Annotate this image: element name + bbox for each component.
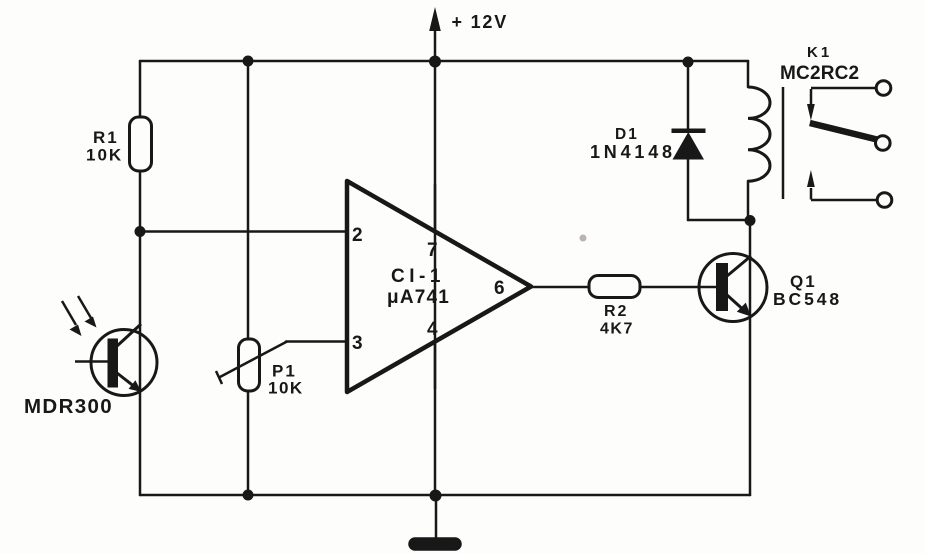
svg-text:MC2RC2: MC2RC2 — [780, 63, 859, 84]
relay K1 armature — [810, 123, 879, 140]
node dot top rail / rail2 — [243, 56, 254, 67]
svg-text:1N4148: 1N4148 — [590, 142, 676, 162]
svg-text:10K: 10K — [86, 146, 123, 165]
MDR300 base bar — [108, 339, 119, 388]
resistor R1 — [130, 117, 152, 171]
node dot top rail / mid rail — [429, 56, 441, 68]
MDR300 collector line — [117, 324, 141, 346]
node dot top rail / D1 — [683, 57, 694, 68]
node dot coil bottom / Q1 collector — [745, 215, 756, 226]
svg-text:10K: 10K — [268, 379, 304, 398]
node dot bottom rail / ground — [430, 490, 442, 502]
svg-text:K1: K1 — [807, 44, 832, 61]
wire P1 wiper to pin 3 — [286, 340, 349, 343]
wire node A to pin 2 — [140, 230, 349, 233]
svg-text:R1: R1 — [93, 128, 119, 147]
wire relay coil top lead — [747, 61, 750, 87]
wire top rail +12V — [140, 60, 748, 63]
Q1 collector line — [727, 256, 751, 276]
MDR300 emitter line with arrow — [117, 373, 133, 386]
diode D1 triangle — [673, 132, 705, 160]
svg-text:7: 7 — [427, 240, 438, 261]
wire Q1 collector-emitter rail — [749, 220, 752, 495]
relay K1 core line — [782, 87, 785, 199]
P1 wiper end tick — [216, 371, 222, 384]
wire pin 6 to R2 — [531, 286, 590, 289]
relay K1 NO contact lead — [811, 199, 878, 202]
svg-text:μA741: μA741 — [387, 287, 450, 308]
svg-text:D1: D1 — [615, 126, 639, 143]
op-amp U1 CI-1 triangle — [347, 181, 531, 392]
P1 wiper arrow — [219, 342, 287, 378]
svg-text:6: 6 — [494, 278, 505, 299]
MDR300 base lead — [75, 360, 108, 363]
relay K1 NO arrow — [810, 188, 813, 200]
wire relay coil bottom lead — [747, 181, 750, 220]
resistor R2 — [589, 276, 640, 298]
relay K1 NC contact lead — [811, 87, 877, 90]
wire second rail (P1 branch) — [247, 61, 250, 495]
svg-text:+ 12V: + 12V — [452, 12, 509, 32]
relay K1 NO terminal — [877, 193, 892, 208]
ground symbol — [435, 495, 438, 540]
+12V supply arrow — [429, 7, 441, 31]
relay K1 coil — [748, 87, 770, 181]
Q1 base bar — [716, 263, 728, 311]
wire bottom rail — [140, 494, 750, 497]
wire mid rail (pin7/pin4 supply) — [434, 26, 437, 495]
faint scan speck — [580, 235, 587, 242]
wire D1 branch — [687, 61, 690, 220]
relay K1 NC terminal — [876, 81, 891, 96]
node dot R1 bottom / pin2 wire — [135, 226, 146, 237]
Q1 emitter line with arrow — [727, 295, 742, 309]
wire left rail — [139, 61, 142, 495]
svg-text:R2: R2 — [604, 303, 628, 320]
svg-text:BC548: BC548 — [773, 289, 842, 309]
relay K1 NC arrow — [810, 89, 813, 106]
svg-text:4: 4 — [427, 319, 438, 340]
potentiometer P1 body — [239, 339, 260, 391]
node dot bottom rail / rail2 — [243, 490, 254, 501]
wire mid rail inside op-amp — [434, 184, 437, 389]
diode D1 cathode bar — [672, 129, 706, 134]
svg-text:4K7: 4K7 — [600, 321, 634, 338]
wire D1 to coil bottom link — [688, 219, 750, 222]
svg-text:MDR300: MDR300 — [24, 395, 113, 418]
phototransistor MDR300 body — [91, 330, 157, 396]
relay K1 common terminal — [876, 136, 891, 151]
wire R2 to Q1 base — [640, 286, 718, 289]
MDR300 light arrow 2 — [78, 296, 91, 318]
transistor Q1 body — [699, 254, 767, 322]
svg-text:CI-1: CI-1 — [391, 266, 445, 287]
svg-text:2: 2 — [352, 225, 363, 246]
MDR300 light arrow 1 — [62, 301, 76, 325]
svg-text:3: 3 — [352, 333, 363, 354]
